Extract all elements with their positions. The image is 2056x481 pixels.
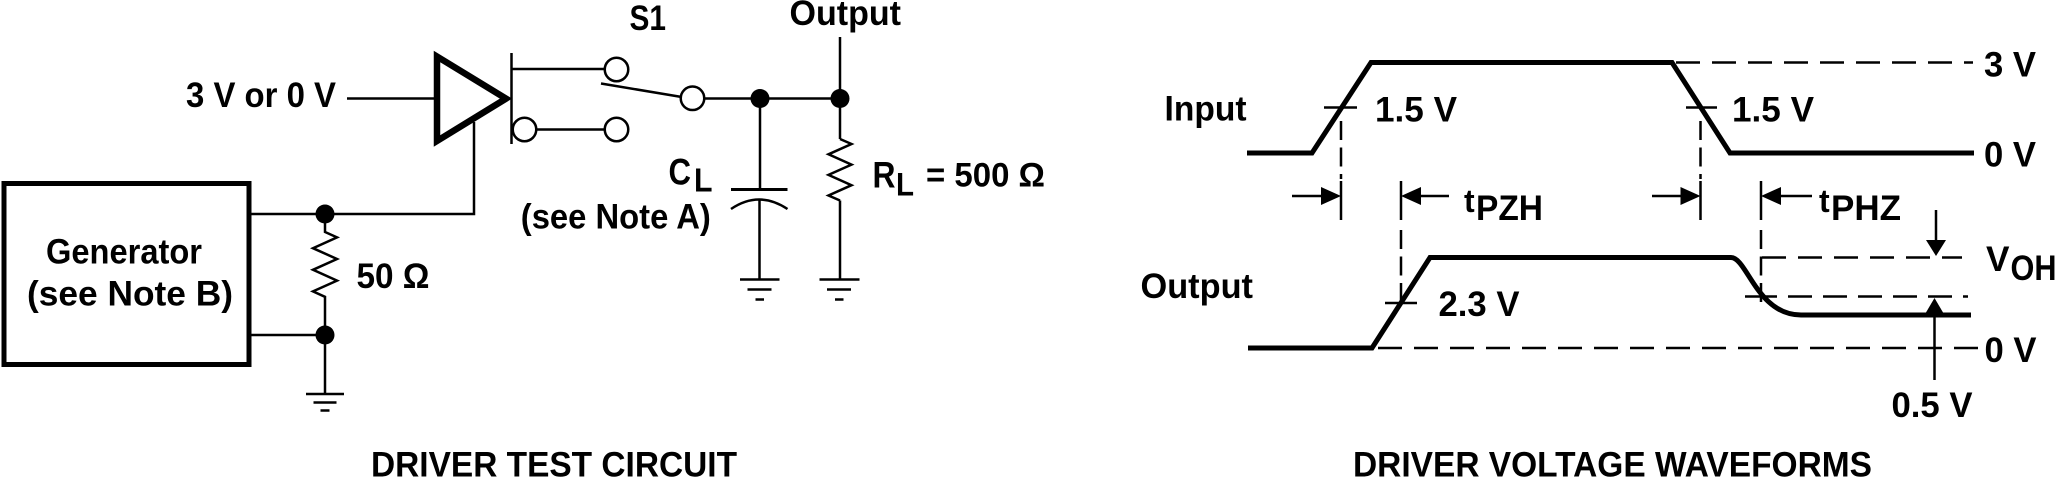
dashed drop line: output rise crossing bbox=[1400, 230, 1403, 302]
dashed drop line: tPHZ input crossing bbox=[1699, 121, 1702, 179]
svg-text:L: L bbox=[694, 162, 713, 199]
capacitor CL curved plate bbox=[731, 200, 788, 210]
wire: bottom node to ground bbox=[324, 335, 327, 394]
switch S1 arm bbox=[601, 84, 681, 97]
svg-text:3 V: 3 V bbox=[1984, 46, 2037, 85]
svg-text:Output: Output bbox=[790, 0, 902, 33]
wire: node to capacitor bbox=[759, 99, 762, 189]
dashed drop line: output HZ crossing bbox=[1760, 230, 1763, 302]
svg-text:Output: Output bbox=[1141, 267, 1254, 306]
wire: output node to RL bbox=[839, 99, 842, 140]
svg-text:S1: S1 bbox=[630, 0, 667, 38]
resistor 50 ohm bbox=[313, 223, 337, 335]
1.5V tick rising edge bbox=[1324, 106, 1357, 109]
wire: node CL to output node bbox=[760, 97, 840, 100]
svg-text:(see Note B): (see Note B) bbox=[27, 275, 233, 314]
svg-text:(see Note A): (see Note A) bbox=[521, 198, 711, 237]
switch S1 pole bar bbox=[510, 53, 513, 144]
generator box bbox=[4, 184, 249, 365]
ground: RL bbox=[820, 280, 860, 300]
switch S1 top throw contact bbox=[605, 58, 629, 82]
wire: capacitor to ground bbox=[758, 199, 761, 279]
ground: generator bbox=[306, 394, 344, 411]
svg-text:PHZ: PHZ bbox=[1831, 189, 1901, 228]
input waveform bbox=[1247, 63, 1974, 154]
switch S1 bottom throw contact left bbox=[513, 118, 537, 142]
svg-text:0 V: 0 V bbox=[1984, 136, 2037, 175]
svg-text:1.5 V: 1.5 V bbox=[1732, 91, 1815, 130]
svg-text:L: L bbox=[896, 167, 914, 203]
switch S1 bottom throw contact right bbox=[605, 118, 629, 142]
svg-text:Generator: Generator bbox=[46, 233, 202, 272]
svg-text:= 500 Ω: = 500 Ω bbox=[926, 157, 1045, 195]
dashed drop line: input rise crossing bbox=[1340, 121, 1343, 179]
svg-text:C: C bbox=[669, 152, 692, 193]
tPHZ right arrow bbox=[1761, 187, 1812, 205]
wire: RL to ground bbox=[839, 201, 842, 280]
svg-text:2.3 V: 2.3 V bbox=[1439, 285, 1521, 324]
svg-text:DRIVER TEST CIRCUIT: DRIVER TEST CIRCUIT bbox=[371, 446, 737, 481]
2.3V tick output rising edge bbox=[1385, 302, 1417, 305]
wire: switch top throw bbox=[512, 68, 605, 71]
VOH-0.5V tick on output fall bbox=[1745, 295, 1777, 298]
junction dot: generator bottom node bbox=[316, 326, 335, 345]
3V level dashed line bbox=[1676, 61, 1973, 64]
tPHZ left arrow bbox=[1652, 187, 1701, 205]
svg-text:DRIVER VOLTAGE WAVEFORMS: DRIVER VOLTAGE WAVEFORMS bbox=[1353, 446, 1872, 481]
svg-text:OH: OH bbox=[2011, 249, 2056, 288]
svg-text:1.5 V: 1.5 V bbox=[1375, 91, 1458, 130]
tPHZ left bound bar bbox=[1699, 181, 1702, 220]
svg-text:R: R bbox=[873, 155, 896, 196]
svg-text:t: t bbox=[1819, 183, 1830, 219]
wire: generator bottom bbox=[251, 334, 325, 337]
svg-text:PZH: PZH bbox=[1476, 189, 1543, 228]
1.5V tick falling edge bbox=[1686, 106, 1717, 109]
wire: switch bottom throw bbox=[537, 128, 605, 131]
svg-text:0 V: 0 V bbox=[1985, 331, 2038, 370]
ground: capacitor bbox=[740, 280, 780, 300]
wire: input to buffer bbox=[347, 97, 436, 100]
tPHZ right bound bar bbox=[1760, 181, 1763, 220]
svg-text:3 V or 0 V: 3 V or 0 V bbox=[186, 76, 337, 115]
svg-text:t: t bbox=[1464, 183, 1475, 219]
svg-text:V: V bbox=[1986, 240, 2010, 279]
VOH level dashed line bbox=[1762, 256, 1962, 259]
0.5V measurement up arrow bbox=[1925, 298, 1945, 380]
VOH measurement down arrow bbox=[1926, 210, 1946, 256]
resistor RL bbox=[829, 139, 852, 201]
wire: output stub bbox=[839, 37, 842, 99]
op-amp buffer U1 bbox=[437, 57, 506, 142]
capacitor CL top plate bbox=[731, 188, 788, 191]
svg-text:Input: Input bbox=[1165, 90, 1247, 129]
tPZH right bound bar bbox=[1400, 181, 1403, 220]
switch S1 common contact bbox=[681, 87, 705, 111]
wire: common to node CL bbox=[705, 97, 761, 100]
wire: generator top to buffer bbox=[251, 122, 474, 214]
svg-text:0.5 V: 0.5 V bbox=[1892, 386, 1974, 425]
VOH-0.5V dashed line bbox=[1788, 295, 1968, 298]
junction dot: node CL bbox=[751, 89, 770, 108]
tPZH left bound bar bbox=[1340, 181, 1343, 220]
0V level dashed line output bbox=[1378, 347, 1980, 350]
junction dot: output node bbox=[831, 89, 850, 108]
tPZH right arrow bbox=[1401, 187, 1449, 205]
svg-text:50 Ω: 50 Ω bbox=[357, 257, 430, 296]
tPZH left arrow bbox=[1292, 187, 1341, 205]
junction dot: generator top node bbox=[316, 205, 335, 224]
output waveform bbox=[1248, 258, 1971, 349]
